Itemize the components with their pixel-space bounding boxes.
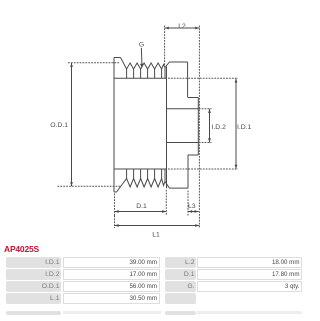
dimension I.D.2 line	[209, 109, 211, 143]
hub step vertical top	[187, 62, 189, 98]
dimension O.D.1 line	[71, 63, 73, 187]
dimension D.1 left extension dashed	[114, 194, 116, 216]
spec table row 2	[6, 269, 61, 280]
dimension I.D.2 extension dotted top	[199, 108, 212, 110]
bore bottom line	[167, 142, 199, 144]
flange top	[114, 57, 121, 59]
top groove zigzag	[121, 58, 170, 70]
hub bottom	[169, 187, 188, 189]
hub step vertical bottom	[187, 155, 189, 188]
dimension D.1 line	[115, 211, 167, 213]
svg-text:I.D.2: I.D.2	[212, 124, 227, 131]
dimension L.1 left extension dashed	[114, 216, 116, 229]
svg-text:D.1: D.1	[136, 203, 147, 210]
top groove ticks	[127, 68, 165, 79]
spec table row 1	[6, 257, 61, 268]
dimension I.D.1 extension dotted top	[168, 77, 238, 79]
rim left edge	[113, 58, 115, 193]
spec table row 3	[6, 281, 61, 292]
hub step horizontal bottom	[188, 154, 198, 156]
dimension O.D.1 extension bottom dotted	[58, 185, 122, 187]
bore top line	[167, 108, 199, 110]
svg-text:L2: L2	[178, 23, 186, 30]
svg-text:O.D.1: O.D.1	[50, 122, 68, 129]
dimension I.D.2 extension dotted bottom	[199, 142, 212, 144]
svg-text:I.D.1: I.D.1	[237, 124, 252, 131]
dimension L.1 line	[115, 225, 200, 227]
dimension L.2 line	[165, 27, 200, 29]
rim/hub junction	[166, 67, 168, 188]
hub step horizontal top	[188, 97, 198, 99]
dimension L.2 extension left dashed	[164, 26, 166, 68]
dimension L.3 left extension dashed	[187, 191, 189, 216]
svg-text:L3: L3	[188, 203, 196, 210]
product code	[4, 245, 39, 254]
svg-text:L1: L1	[152, 232, 160, 239]
dimension I.D.1 line	[235, 78, 237, 169]
rim face line top	[114, 77, 167, 79]
svg-text:G: G	[139, 42, 144, 49]
hub top	[169, 61, 187, 63]
dimension D.1 right extension dashed	[165, 190, 167, 216]
rim face line bottom	[114, 168, 167, 170]
next table partial row (clipped)	[6, 311, 61, 315]
hub end face	[197, 98, 199, 156]
spec table row 4	[6, 293, 61, 304]
bottom groove zigzag	[117, 179, 170, 193]
bottom groove ticks	[127, 169, 165, 182]
dimension I.D.1 extension dotted bottom	[168, 168, 238, 170]
dimension O.D.1 extension top dotted	[68, 62, 120, 64]
flange bottom	[114, 191, 117, 193]
dimension L.3 line	[188, 211, 199, 213]
leader G	[140, 48, 143, 65]
dimension L.2 / L.1 right extension dashed	[198, 26, 200, 229]
